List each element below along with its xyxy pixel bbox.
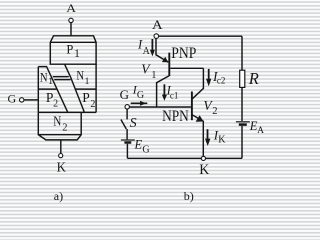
- label R: [248, 69, 259, 88]
- svg-text:G: G: [142, 145, 149, 156]
- junction N1/P2 right: [75, 88, 96, 90]
- svg-text:2: 2: [62, 123, 67, 134]
- label N1 right: [76, 67, 89, 87]
- arrow Ic2 current: [208, 69, 210, 80]
- resistor R: [240, 70, 245, 87]
- svg-text:G: G: [8, 91, 17, 105]
- svg-text:K: K: [218, 135, 226, 146]
- node K label (part a): [57, 159, 67, 175]
- wire V1 base to V2 collector: [170, 67, 203, 69]
- wire A lead (part a): [70, 23, 72, 36]
- svg-text:c2: c2: [217, 75, 226, 85]
- wire top rail: [159, 35, 242, 37]
- svg-text:NPN: NPN: [162, 108, 189, 125]
- arrow IK current: [207, 129, 209, 140]
- label P1: [66, 43, 80, 61]
- svg-text:A: A: [152, 19, 163, 33]
- label EA: [249, 119, 264, 136]
- svg-text:a): a): [54, 189, 63, 203]
- wire G lead (part a): [24, 99, 38, 101]
- svg-text:S: S: [130, 116, 137, 131]
- svg-text:1: 1: [74, 48, 80, 60]
- svg-text:1: 1: [85, 77, 90, 87]
- switch S wire lower: [126, 129, 128, 139]
- terminal circle G (part b): [125, 105, 129, 109]
- wire G to V2 base: [130, 106, 191, 108]
- middle block left edge: [37, 67, 39, 113]
- label EG: [134, 138, 150, 156]
- svg-text:A: A: [143, 46, 151, 57]
- svg-text:K: K: [57, 159, 67, 175]
- band junction line lower: [54, 79, 70, 81]
- svg-text:N: N: [53, 113, 61, 128]
- P1 layer box (chamfered top): [50, 36, 96, 64]
- label IA: [137, 38, 151, 57]
- switch S blade: [121, 120, 126, 130]
- node G label (part b): [120, 87, 129, 102]
- wire V2 collector: [192, 68, 203, 99]
- label P2 right: [82, 90, 95, 110]
- caption b): [184, 189, 194, 203]
- node A label (part b): [152, 19, 163, 33]
- transistor V1 bar: [168, 53, 170, 77]
- N1 left top edge: [38, 66, 46, 68]
- svg-text:P: P: [66, 43, 73, 57]
- wire right rail upper: [241, 36, 243, 70]
- battery EG long plate: [121, 139, 135, 141]
- label Ic1: [166, 84, 179, 101]
- label IG: [132, 82, 144, 101]
- svg-text:PNP: PNP: [171, 45, 196, 62]
- label PNP: [171, 45, 196, 62]
- transistor V2 bar: [191, 92, 193, 121]
- svg-text:G: G: [137, 90, 144, 101]
- caption a): [54, 189, 63, 203]
- wire bottom rail: [127, 157, 242, 159]
- label IK: [213, 127, 227, 145]
- right edge of layers: [95, 64, 97, 112]
- svg-text:N: N: [40, 70, 48, 85]
- node K circle (part b): [201, 156, 205, 160]
- N2 layer box (chamfered bottom): [38, 112, 81, 139]
- label N1 left: [40, 70, 53, 87]
- wire R to battery: [241, 87, 243, 121]
- svg-text:2: 2: [53, 98, 58, 109]
- svg-text:G: G: [120, 87, 129, 102]
- svg-text:c1: c1: [170, 90, 179, 100]
- svg-text:K: K: [199, 162, 210, 179]
- bottom boundary P2/N2: [38, 111, 96, 113]
- terminal circle K (part a): [59, 154, 63, 158]
- battery EA long plate: [236, 121, 250, 123]
- svg-text:2: 2: [90, 99, 95, 110]
- junction N1/P2 left: [38, 88, 57, 90]
- cut diagonal 1: [46, 66, 68, 112]
- battery EG short plate: [124, 141, 131, 144]
- label NPN: [162, 108, 189, 125]
- wire EG to bottom rail: [126, 144, 128, 159]
- node G label (part a): [8, 91, 17, 105]
- band junction line upper: [53, 76, 69, 78]
- label N2: [53, 113, 67, 133]
- wire right rail lower: [241, 126, 243, 158]
- wire A to V1 emitter: [156, 38, 168, 62]
- svg-text:1: 1: [48, 77, 53, 87]
- svg-text:A: A: [257, 126, 264, 136]
- svg-text:1: 1: [151, 70, 156, 81]
- V2 NPN emitter arrowhead: [196, 115, 204, 122]
- svg-text:E: E: [134, 138, 143, 152]
- op V1 PNP emitter arrowhead: [162, 57, 168, 63]
- svg-text:b): b): [184, 189, 194, 203]
- label P2 left: [46, 90, 58, 110]
- node K label (part b): [199, 162, 210, 179]
- arrow IG current: [131, 102, 148, 104]
- label Ic2: [212, 69, 225, 85]
- label S: [130, 116, 137, 131]
- terminal circle A (part a): [69, 18, 73, 22]
- terminal circle G (part a): [20, 98, 24, 102]
- switch S wire upper: [126, 109, 128, 119]
- wire K lead (part a): [60, 140, 62, 154]
- wire V2 emitter: [192, 115, 203, 156]
- svg-text:N: N: [76, 67, 84, 82]
- arrow Ic1 current: [163, 84, 165, 95]
- wire V1 collector: [157, 76, 169, 107]
- svg-text:V: V: [141, 61, 151, 76]
- svg-text:P: P: [82, 90, 90, 105]
- arrow IA current: [151, 39, 153, 50]
- label V2: [203, 98, 217, 117]
- terminal circle A (part b): [154, 34, 159, 39]
- svg-text:A: A: [66, 2, 77, 15]
- cut diagonal 2: [65, 64, 85, 112]
- label V1: [141, 61, 156, 81]
- svg-text:R: R: [248, 69, 259, 88]
- node A (anode terminal label, part a): [66, 2, 77, 15]
- battery EA short plate: [239, 123, 247, 126]
- svg-text:2: 2: [212, 106, 217, 117]
